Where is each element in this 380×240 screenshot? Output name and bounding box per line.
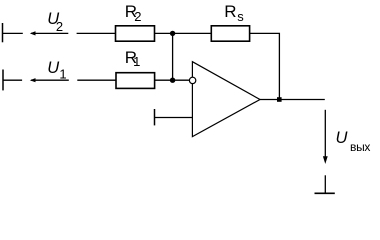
non-inverting input terminal — [154, 109, 156, 125]
node A junction dot — [170, 31, 175, 36]
resistor R1 — [116, 73, 155, 89]
svg-text:s: s — [237, 9, 244, 24]
svg-text:1: 1 — [133, 54, 140, 69]
svg-text:U: U — [336, 129, 348, 147]
wire (node A to node B) — [172, 33, 174, 80]
output terminal — [315, 175, 335, 193]
label R2 — [125, 2, 142, 24]
wire (non-inverting input) — [155, 117, 193, 119]
svg-text:2: 2 — [134, 9, 141, 24]
label R1 — [125, 48, 141, 69]
svg-text:2: 2 — [56, 19, 63, 34]
voltage arrow U2 — [30, 31, 69, 35]
wire — [250, 33, 280, 99]
wire (op-amp output) — [260, 99, 325, 101]
wire — [155, 79, 190, 81]
output node junction dot — [277, 97, 282, 102]
svg-text:U: U — [47, 59, 59, 77]
voltage arrow U1 — [30, 78, 69, 82]
input terminal T1 (U1 input) — [2, 70, 4, 91]
inverting input bubble — [189, 77, 195, 83]
label RS — [224, 2, 244, 24]
wire — [3, 32, 23, 34]
op-amp U1 triangle — [192, 62, 260, 137]
wire — [155, 32, 212, 34]
label U vyh — [336, 129, 371, 154]
svg-text:1: 1 — [59, 66, 66, 81]
svg-text:вых: вых — [350, 140, 370, 154]
wire — [3, 79, 22, 81]
label U2 — [47, 10, 63, 34]
node B junction dot — [170, 78, 175, 83]
voltage arrow U out — [323, 110, 328, 164]
wire — [77, 32, 116, 34]
label U1 — [47, 59, 66, 82]
wire — [77, 79, 116, 81]
input terminal T2 (U2 input) — [2, 23, 4, 42]
resistor RS — [211, 26, 249, 41]
resistor R2 — [116, 26, 155, 41]
svg-text:R: R — [224, 2, 236, 21]
